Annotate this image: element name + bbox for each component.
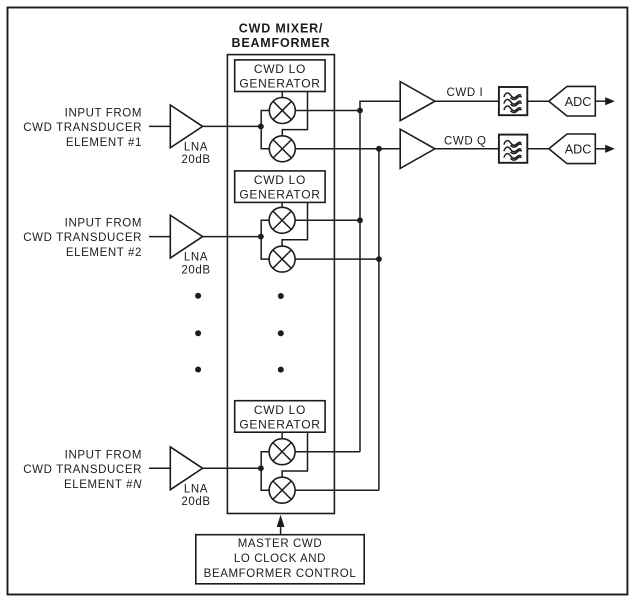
wire LNA2 output: [203, 236, 262, 238]
svg-text:BEAMFORMER: BEAMFORMER: [232, 36, 331, 50]
wire LON to mixer QN: [282, 432, 307, 477]
op-amp I summing amplifier: [400, 82, 435, 121]
node I bus tap 1: [357, 108, 363, 114]
wire mixer Q1 output: [295, 148, 400, 150]
op-amp Q summing amplifier: [400, 129, 435, 168]
filter I: [499, 87, 527, 115]
svg-text:GENERATOR: GENERATOR: [239, 77, 320, 91]
svg-text:CWD I: CWD I: [447, 87, 484, 99]
wire Q summing bus: [378, 149, 380, 490]
CWD LO generator box 1: [235, 60, 325, 92]
svg-text:ELEMENT #2: ELEMENT #2: [66, 247, 142, 259]
wire LO1 to mixer Q1: [282, 92, 307, 136]
svg-text:20dB: 20dB: [181, 154, 210, 166]
node Q bus tap 1: [376, 146, 382, 152]
wire mixer IN output: [295, 451, 360, 453]
wire amp I to filter: [435, 100, 499, 102]
svg-text:INPUT FROM: INPUT FROM: [65, 218, 142, 230]
mixer Q2: [269, 246, 295, 272]
svg-text:MASTER CWD: MASTER CWD: [238, 538, 323, 550]
wire LO2 to mixer I2: [281, 202, 283, 207]
svg-text:LNA: LNA: [184, 483, 208, 495]
node Q bus tap 2: [376, 256, 382, 262]
node junction input 1: [258, 124, 264, 130]
filter Q: [499, 135, 527, 163]
node I bus tap 2: [357, 217, 363, 223]
mixer I2: [269, 207, 295, 233]
ADC Q: [549, 134, 596, 164]
wire mixer Q2 output: [295, 258, 379, 260]
wire ADC Q output arrow: [595, 148, 605, 150]
wire ADC I output arrow: [595, 100, 605, 102]
wire LNA1 output: [203, 125, 262, 127]
svg-text:CWD LO: CWD LO: [254, 62, 306, 76]
wire input split 2: [261, 220, 269, 259]
wire input N: [149, 467, 170, 469]
wire input 2: [149, 236, 170, 238]
amplifier LNA 1: [170, 105, 202, 148]
wire input split 1: [261, 111, 269, 149]
wire mixer I1 output: [295, 110, 360, 112]
mixer QN: [269, 477, 295, 503]
wire mixer QN output: [295, 489, 379, 491]
svg-text:LNA: LNA: [184, 252, 208, 264]
wire master control arrow: [280, 526, 282, 535]
CWD LO generator box 2: [235, 171, 325, 203]
wire mixer I2 output: [295, 219, 360, 221]
ellipsis dots left column: [195, 293, 201, 299]
node junction input 2: [258, 234, 264, 240]
svg-text:CWD LO: CWD LO: [254, 403, 306, 417]
svg-text:CWD Q: CWD Q: [444, 135, 487, 147]
svg-text:CWD LO: CWD LO: [254, 173, 306, 187]
wire filter I to ADC: [527, 100, 549, 102]
wire input split N: [261, 452, 269, 491]
svg-text:GENERATOR: GENERATOR: [239, 188, 320, 202]
beamformer block outline: [227, 55, 334, 514]
wire filter Q to ADC: [527, 148, 549, 150]
svg-text:INPUT FROM: INPUT FROM: [65, 449, 142, 461]
svg-text:INPUT FROM: INPUT FROM: [65, 108, 142, 120]
svg-text:BEAMFORMER CONTROL: BEAMFORMER CONTROL: [204, 568, 357, 580]
wire LON to mixer IN: [281, 432, 283, 439]
svg-text:ADC: ADC: [565, 142, 592, 156]
ellipsis dots LO column: [278, 293, 284, 299]
svg-text:20dB: 20dB: [181, 264, 210, 276]
wire input 1: [149, 125, 170, 127]
node junction input N: [258, 465, 264, 471]
ADC I: [549, 86, 596, 116]
mixer Q1: [269, 136, 295, 162]
svg-text:20dB: 20dB: [181, 496, 210, 508]
master control box: [196, 535, 364, 584]
svg-text:ELEMENT #N: ELEMENT #N: [64, 479, 142, 491]
wire I summing bus: [360, 101, 400, 452]
svg-text:ELEMENT #1: ELEMENT #1: [66, 137, 142, 149]
wire LNAN output: [203, 467, 262, 469]
mixer I1: [269, 98, 295, 124]
svg-text:GENERATOR: GENERATOR: [239, 417, 320, 431]
wire LO2 to mixer Q2: [282, 202, 307, 246]
svg-text:CWD TRANSDUCER: CWD TRANSDUCER: [23, 122, 142, 134]
svg-text:LO CLOCK AND: LO CLOCK AND: [234, 553, 326, 565]
wire amp Q to filter: [435, 148, 499, 150]
mixer IN: [269, 439, 295, 465]
CWD LO generator box N: [235, 401, 325, 433]
amplifier LNA N: [170, 447, 202, 490]
amplifier LNA 2: [170, 215, 202, 258]
svg-text:CWD TRANSDUCER: CWD TRANSDUCER: [23, 232, 142, 244]
svg-text:CWD MIXER/: CWD MIXER/: [239, 22, 323, 36]
svg-text:ADC: ADC: [565, 95, 592, 109]
svg-text:LNA: LNA: [184, 141, 208, 153]
svg-text:CWD TRANSDUCER: CWD TRANSDUCER: [23, 464, 142, 476]
wire LO1 to mixer I1: [281, 92, 283, 98]
